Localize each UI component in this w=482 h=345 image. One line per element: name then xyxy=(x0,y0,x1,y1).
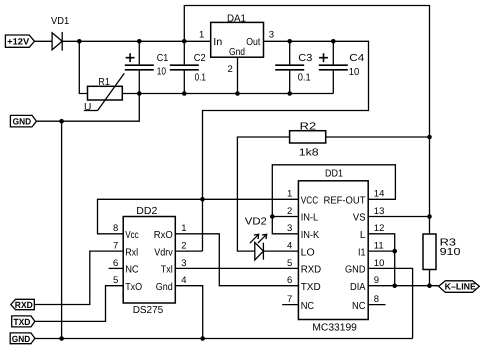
node R3 bottom junction xyxy=(427,283,432,288)
svg-text:2: 2 xyxy=(181,241,186,252)
svg-text:TxO: TxO xyxy=(125,282,142,293)
wire I1 pin xyxy=(368,250,395,252)
svg-text:GND: GND xyxy=(345,265,366,276)
svg-text:1: 1 xyxy=(181,223,186,234)
svg-text:Gnd: Gnd xyxy=(229,47,245,58)
svg-text:VS: VS xyxy=(353,213,366,224)
svg-text:U: U xyxy=(84,102,91,113)
wire top bypass battery to right bus xyxy=(184,6,429,138)
svg-text:Gnd: Gnd xyxy=(156,282,173,293)
wire DA1 Out 5V feed xyxy=(203,41,369,199)
svg-text:4: 4 xyxy=(287,241,292,252)
svg-text:C1: C1 xyxy=(157,53,169,64)
svg-text:5: 5 xyxy=(287,258,292,269)
wire DD2 Vdrv to 5V xyxy=(175,199,202,251)
svg-text:MC33199: MC33199 xyxy=(312,323,357,334)
svg-text:0.1: 0.1 xyxy=(195,72,207,83)
IC DD2 DS275 xyxy=(123,206,175,316)
svg-text:DS275: DS275 xyxy=(133,305,164,316)
capacitor C1 xyxy=(125,41,169,93)
node 5V rail C4 top xyxy=(331,39,336,44)
svg-text:REF-OUT: REF-OUT xyxy=(324,196,366,207)
node R2 right bus junction xyxy=(427,135,432,140)
pin 7 NC stub xyxy=(282,304,298,306)
connector TXD xyxy=(12,316,35,327)
wire +12V tag to diode VD1 xyxy=(35,40,53,42)
LED VD2 xyxy=(245,217,267,261)
svg-text:LO: LO xyxy=(301,247,315,258)
svg-text:6: 6 xyxy=(113,258,118,269)
wire REF-OUT loop over DD1 to IN-L/IN-K xyxy=(272,165,395,234)
node IN-L junction xyxy=(270,214,275,219)
svg-text:C4: C4 xyxy=(349,53,364,64)
node GND tag row junction xyxy=(59,119,64,124)
node ground row C3 xyxy=(287,91,292,96)
svg-text:L: L xyxy=(360,230,366,241)
svg-text:1k8: 1k8 xyxy=(299,148,319,159)
wire 5V rail to DD1 VCC and DD2 Vcc xyxy=(98,199,299,234)
svg-text:1: 1 xyxy=(199,30,204,41)
node ground row C1 xyxy=(137,91,142,96)
svg-text:Vcc: Vcc xyxy=(125,230,139,241)
capacitor C3 xyxy=(275,41,312,93)
wire R3 bottom to K-line row xyxy=(429,270,431,286)
svg-text:4: 4 xyxy=(181,275,186,286)
node VS junction xyxy=(427,214,432,219)
svg-text:9: 9 xyxy=(374,275,379,286)
svg-text:Vdrv: Vdrv xyxy=(154,247,173,258)
wire DIA pin to K-LINE xyxy=(368,285,439,287)
wire R2 right to right bus xyxy=(326,136,430,138)
wire GND pin down to bottom rail xyxy=(368,268,412,338)
wire R2 left down to VD2 anode xyxy=(237,137,289,251)
DD1 left pin numbers 1-7 xyxy=(287,189,292,305)
svg-text:7: 7 xyxy=(113,241,118,252)
svg-text:NC: NC xyxy=(125,265,139,276)
wire diode to DA1 In (battery rail) xyxy=(62,40,211,42)
wire L pin down to I1 and DIA xyxy=(368,234,395,286)
svg-text:In: In xyxy=(213,37,222,48)
svg-text:3: 3 xyxy=(181,258,186,269)
DD2 right pin numbers 1-4 xyxy=(181,223,186,286)
wire DD2 Txl to DD1 RXD xyxy=(175,267,298,269)
pin 8 NC stub xyxy=(368,304,385,306)
wire VD2 cathode to DD1 LO xyxy=(263,250,298,252)
svg-text:910: 910 xyxy=(440,247,461,258)
svg-text:RxO: RxO xyxy=(154,230,173,241)
svg-text:IN-L: IN-L xyxy=(301,213,319,224)
connector +12V xyxy=(5,35,34,47)
svg-text:RXD: RXD xyxy=(301,265,322,276)
DD2 left pin numbers 8-5 xyxy=(113,223,118,286)
diode VD1 xyxy=(51,16,69,51)
svg-text:VD1: VD1 xyxy=(51,16,69,27)
svg-text:I1: I1 xyxy=(358,247,366,258)
pin 6 NC stub DD2 xyxy=(109,267,124,269)
node ground row C2 xyxy=(182,91,187,96)
connector K-LINE xyxy=(439,281,480,293)
svg-text:2: 2 xyxy=(287,206,292,217)
svg-text:11: 11 xyxy=(374,241,384,252)
svg-text:IN-K: IN-K xyxy=(301,230,320,241)
svg-text:C3: C3 xyxy=(298,53,312,64)
svg-text:NC: NC xyxy=(352,301,366,312)
svg-text:NC: NC xyxy=(301,301,315,312)
svg-text:RXD: RXD xyxy=(15,300,33,310)
connector GND (upper) xyxy=(10,115,36,127)
node rail junction C2/top-wire xyxy=(182,39,187,44)
resistor R3 xyxy=(423,234,461,270)
capacitor C2 xyxy=(170,41,206,93)
svg-text:3: 3 xyxy=(287,223,292,234)
node ground row DA1 Gnd xyxy=(235,91,240,96)
svg-text:8: 8 xyxy=(374,294,379,305)
svg-text:12: 12 xyxy=(374,223,385,234)
svg-text:14: 14 xyxy=(374,189,385,200)
svg-text:Txl: Txl xyxy=(161,265,173,276)
wire IN-L pin xyxy=(272,216,298,218)
resistor R2 xyxy=(290,122,326,159)
node 5V rail junction xyxy=(200,197,205,202)
svg-text:GND: GND xyxy=(13,117,32,127)
node DIA junction xyxy=(392,283,397,288)
svg-text:TXD: TXD xyxy=(13,317,30,327)
wire DD2 Rxl to RXD tag xyxy=(34,251,123,304)
capacitor C4 xyxy=(319,41,365,93)
svg-text:2: 2 xyxy=(228,64,233,75)
svg-text:10: 10 xyxy=(349,67,360,78)
wire rail down to varistor R1 left xyxy=(79,41,87,93)
DD2 interior pin names xyxy=(125,230,142,293)
svg-text:GND: GND xyxy=(12,334,31,344)
svg-text:10: 10 xyxy=(374,258,385,269)
node 5V rail C3 top xyxy=(287,39,292,44)
svg-text:Out: Out xyxy=(246,37,260,48)
svg-text:+12V: +12V xyxy=(7,37,29,47)
svg-text:10: 10 xyxy=(157,67,167,78)
regulator DA1 xyxy=(211,14,264,58)
wire DD2 RxO to DD1 TXD xyxy=(175,234,298,286)
svg-text:DD2: DD2 xyxy=(136,206,157,217)
svg-text:7: 7 xyxy=(287,294,292,305)
node rail junction C1 top xyxy=(137,39,142,44)
svg-text:5: 5 xyxy=(113,275,118,286)
wire ground row down to GND tag row xyxy=(37,94,140,122)
node bottom rail DD2 Gnd xyxy=(200,336,205,341)
wire bottom ground rail xyxy=(35,338,413,340)
svg-text:13: 13 xyxy=(374,206,385,217)
wire VS pin to right bus xyxy=(368,216,429,218)
node bottom rail left GND bus xyxy=(59,336,64,341)
wire DA1 Gnd to ground row xyxy=(237,57,239,93)
svg-text:K–LINE: K–LINE xyxy=(445,282,476,292)
varistor R1 xyxy=(84,73,124,113)
svg-text:DD1: DD1 xyxy=(325,169,343,180)
svg-text:Rxl: Rxl xyxy=(125,247,138,258)
wire ground row R1 to C4 xyxy=(122,93,333,95)
svg-text:TXD: TXD xyxy=(301,282,321,293)
connector RXD xyxy=(11,299,35,310)
svg-text:1: 1 xyxy=(287,189,292,200)
wire GND vertical left bus xyxy=(61,121,63,338)
svg-text:3: 3 xyxy=(269,30,274,41)
svg-text:VCC: VCC xyxy=(301,196,319,207)
svg-text:VD2: VD2 xyxy=(245,217,267,228)
wire right bus down to R3 xyxy=(429,137,431,234)
svg-text:6: 6 xyxy=(287,275,292,286)
wire DD2 TxO to TXD tag xyxy=(35,286,123,322)
node I1 junction xyxy=(392,249,397,254)
wire DD2 Gnd to bottom rail xyxy=(175,286,202,339)
DD1 right pin numbers 14-8 xyxy=(374,189,385,305)
svg-text:0.1: 0.1 xyxy=(298,72,311,83)
node rail junction R1 tap xyxy=(77,39,82,44)
DD1 interior pin names xyxy=(301,196,322,312)
svg-text:8: 8 xyxy=(113,223,118,234)
svg-text:C2: C2 xyxy=(194,53,206,64)
IC DD1 MC33199 xyxy=(298,169,368,334)
svg-text:DIA: DIA xyxy=(350,282,366,293)
connector GND (lower) xyxy=(10,333,35,344)
